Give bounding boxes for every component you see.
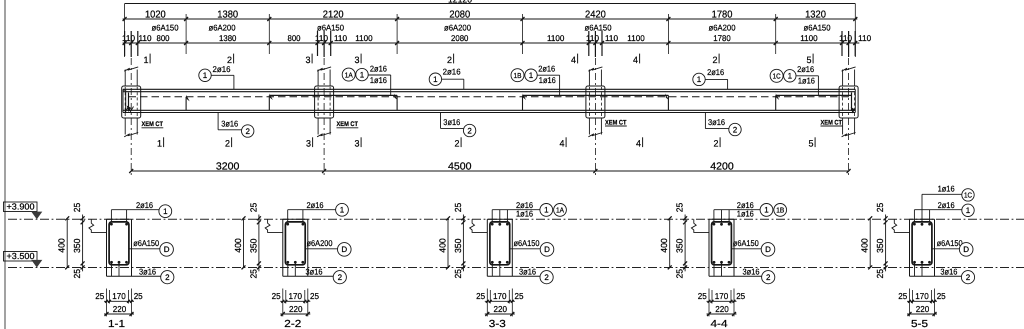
svg-text:350: 350 bbox=[675, 238, 685, 253]
svg-text:3-3: 3-3 bbox=[489, 319, 506, 329]
svg-text:25: 25 bbox=[248, 269, 258, 279]
svg-text:1780: 1780 bbox=[713, 33, 731, 43]
svg-text:110: 110 bbox=[605, 33, 618, 43]
svg-text:1ø16: 1ø16 bbox=[539, 75, 556, 85]
tick row2 bbox=[774, 41, 778, 45]
callout 2ø16 span3 circle 1 bbox=[706, 78, 728, 80]
tick row1 bbox=[184, 17, 188, 21]
section 5-5 stirrup ø6A150 bbox=[912, 222, 932, 265]
tick row2 bbox=[395, 41, 399, 45]
svg-text:XEM CT: XEM CT bbox=[142, 121, 164, 128]
svg-text:5-5: 5-5 bbox=[911, 319, 928, 329]
tick row2 bbox=[123, 41, 127, 45]
section 4-4 concrete outline bbox=[708, 219, 710, 276]
svg-text:110: 110 bbox=[858, 33, 871, 43]
svg-text:800: 800 bbox=[287, 33, 300, 43]
svg-text:2: 2 bbox=[733, 125, 738, 134]
beam bottom chord double line bbox=[123, 109, 855, 111]
tick row1 bbox=[395, 17, 399, 21]
svg-text:350: 350 bbox=[248, 238, 258, 253]
svg-text:400: 400 bbox=[57, 238, 67, 253]
svg-text:3ø16: 3ø16 bbox=[743, 266, 760, 276]
beam right end face bbox=[854, 89, 856, 112]
svg-text:1100: 1100 bbox=[355, 33, 373, 43]
section 3-3 width dims 25 170 25 bbox=[485, 300, 515, 302]
svg-text:1C: 1C bbox=[773, 72, 781, 81]
svg-text:2: 2 bbox=[447, 55, 452, 65]
tick row2 bbox=[847, 41, 851, 45]
tick row2 bbox=[267, 41, 271, 45]
svg-text:25: 25 bbox=[875, 203, 885, 213]
svg-text:4: 4 bbox=[633, 55, 638, 65]
svg-text:2ø16: 2ø16 bbox=[213, 64, 231, 74]
top rebar no.1 dashed line bbox=[129, 96, 852, 98]
section 1-1 vertical dim 400 bbox=[66, 218, 68, 267]
callout support4 circles 1C 1 bbox=[796, 75, 818, 77]
svg-text:XEM CT: XEM CT bbox=[821, 119, 843, 126]
section 3-3 slab break line bbox=[470, 219, 488, 232]
section 1-1 bottom bar callout 3ø16 bbox=[107, 275, 161, 277]
column 2 centerline bbox=[323, 58, 325, 176]
column 4 shaft bbox=[842, 70, 844, 87]
svg-text:170: 170 bbox=[289, 291, 303, 301]
svg-text:1: 1 bbox=[529, 71, 534, 80]
support bar over column 2 bbox=[269, 94, 397, 96]
section 5-5 stirrup callout ø6A150 bbox=[932, 248, 960, 250]
section 5-5 width dims 25 170 25 bbox=[907, 300, 937, 302]
svg-text:3200: 3200 bbox=[216, 161, 240, 172]
callout 3ø16 span1 circle 2 bbox=[217, 113, 219, 130]
section 3-3 concrete outline bbox=[486, 219, 488, 276]
dimension line row2 bbox=[123, 42, 860, 44]
section 5-5 concrete outline bbox=[909, 219, 911, 276]
svg-text:XEM CT: XEM CT bbox=[605, 119, 627, 126]
section 4-4 vertical dim 400 bbox=[669, 218, 671, 267]
column 3 joint bbox=[586, 86, 605, 118]
svg-text:1380: 1380 bbox=[217, 10, 238, 21]
support bar hook at t1 bbox=[185, 97, 187, 111]
section 4-4 bottom bars bbox=[713, 261, 716, 264]
svg-text:ø6A200: ø6A200 bbox=[307, 238, 333, 248]
svg-text:1B: 1B bbox=[514, 71, 522, 80]
svg-text:400: 400 bbox=[233, 238, 243, 253]
section 4-4 slab break line bbox=[691, 219, 709, 232]
section 3-3 stirrup callout ø6A150 bbox=[510, 248, 541, 250]
callout 2ø16 span2 circle 1 bbox=[442, 78, 464, 80]
tick row2 bbox=[136, 41, 140, 45]
svg-text:2: 2 bbox=[966, 273, 971, 282]
section 1-1 top bars bbox=[110, 223, 113, 226]
tick row1 bbox=[521, 17, 525, 21]
svg-text:25: 25 bbox=[937, 291, 946, 301]
section 5-5 dim chain 25 350 25 bbox=[885, 215, 887, 272]
column 2 break marks bbox=[317, 67, 331, 71]
level line +3.500 bbox=[8, 267, 1024, 269]
svg-text:1ø16: 1ø16 bbox=[798, 75, 815, 85]
svg-text:1: 1 bbox=[966, 206, 971, 215]
top rebar bend-down hook left end bbox=[125, 90, 127, 112]
svg-text:25: 25 bbox=[453, 203, 463, 213]
tick row2 bbox=[593, 41, 597, 45]
svg-text:4-4: 4-4 bbox=[711, 319, 728, 329]
svg-text:ø6A150: ø6A150 bbox=[133, 238, 159, 248]
column 1 joint bbox=[122, 86, 141, 118]
beam left end face bbox=[122, 89, 124, 112]
svg-text:ø6A200: ø6A200 bbox=[209, 23, 236, 33]
svg-text:D: D bbox=[765, 245, 771, 254]
column 1 centerline bbox=[130, 58, 132, 176]
svg-text:400: 400 bbox=[659, 238, 669, 253]
svg-text:1C: 1C bbox=[964, 191, 972, 200]
section 2-2 bottom bars bbox=[286, 261, 289, 264]
svg-text:2: 2 bbox=[165, 273, 170, 282]
svg-text:1100: 1100 bbox=[547, 33, 565, 43]
callout 3ø16 span2 circle 2 bbox=[440, 113, 442, 129]
svg-text:3: 3 bbox=[306, 55, 311, 65]
svg-text:2120: 2120 bbox=[323, 10, 344, 21]
left joint break squiggle bbox=[125, 107, 134, 113]
svg-text:170: 170 bbox=[915, 291, 929, 301]
svg-text:2ø16: 2ø16 bbox=[370, 64, 387, 74]
svg-text:110: 110 bbox=[334, 33, 347, 43]
svg-text:1-1: 1-1 bbox=[108, 319, 125, 329]
section 3-3 stirrup ø6A150 bbox=[490, 222, 510, 265]
svg-text:XEM CT: XEM CT bbox=[337, 121, 359, 128]
tick row2 bbox=[521, 41, 525, 45]
svg-text:1100: 1100 bbox=[800, 33, 818, 43]
section 3-3 dim chain 25 350 25 bbox=[462, 215, 464, 272]
svg-text:12120: 12120 bbox=[448, 0, 472, 5]
svg-text:1780: 1780 bbox=[712, 10, 733, 21]
svg-text:1: 1 bbox=[340, 206, 345, 215]
svg-text:ø6A150: ø6A150 bbox=[152, 23, 179, 33]
callout 2ø16 span1 circle 1 bbox=[212, 74, 234, 76]
svg-text:25: 25 bbox=[736, 291, 745, 301]
section 1-1 concrete outline bbox=[106, 219, 108, 276]
svg-text:25: 25 bbox=[72, 203, 82, 213]
extension lines bbox=[124, 4, 126, 58]
section 4-4 dim chain 25 350 25 bbox=[684, 215, 686, 272]
svg-text:1A: 1A bbox=[556, 206, 564, 215]
svg-text:D: D bbox=[963, 245, 969, 254]
svg-text:220: 220 bbox=[113, 304, 127, 314]
svg-text:2ø16: 2ø16 bbox=[797, 64, 814, 74]
svg-text:ø6A150: ø6A150 bbox=[937, 238, 963, 248]
svg-text:1ø16: 1ø16 bbox=[737, 208, 754, 218]
svg-text:350: 350 bbox=[875, 238, 885, 253]
svg-text:220: 220 bbox=[289, 304, 303, 314]
column 4 break marks bbox=[842, 67, 856, 71]
svg-text:25: 25 bbox=[95, 291, 104, 301]
svg-text:1: 1 bbox=[764, 206, 769, 215]
svg-text:25: 25 bbox=[476, 291, 485, 301]
svg-text:350: 350 bbox=[72, 238, 82, 253]
column 2 joint bbox=[315, 86, 334, 118]
svg-text:25: 25 bbox=[248, 203, 258, 213]
svg-text:25: 25 bbox=[134, 291, 143, 301]
svg-text:3ø16: 3ø16 bbox=[221, 118, 238, 128]
section 1-1 width dim 220 bbox=[104, 313, 134, 315]
section 3-3 top bar callout bbox=[492, 209, 540, 211]
svg-text:1ø16: 1ø16 bbox=[516, 208, 533, 218]
section 5-5 vertical dim 400 bbox=[869, 218, 871, 267]
svg-text:2ø16: 2ø16 bbox=[443, 67, 461, 77]
section 2-2 concrete outline bbox=[282, 219, 284, 276]
svg-text:3ø16: 3ø16 bbox=[519, 266, 536, 276]
tick row2 bbox=[853, 41, 857, 45]
svg-text:220: 220 bbox=[715, 304, 729, 314]
svg-text:4500: 4500 bbox=[448, 161, 472, 172]
svg-text:4: 4 bbox=[571, 55, 576, 65]
section 5-5 slab break line bbox=[892, 219, 910, 232]
section 5-5 bottom bar callout 3ø16 bbox=[910, 275, 962, 277]
section 3-3 top bars bbox=[491, 223, 494, 226]
svg-text:25: 25 bbox=[310, 291, 319, 301]
section 4-4 bottom bar callout 3ø16 bbox=[709, 275, 762, 277]
svg-text:2ø16: 2ø16 bbox=[707, 67, 724, 77]
section 1-1 top bar callout bbox=[111, 209, 159, 211]
svg-text:25: 25 bbox=[875, 269, 885, 279]
svg-text:+3.900: +3.900 bbox=[7, 202, 35, 212]
svg-text:2080: 2080 bbox=[449, 10, 470, 21]
tick row2 bbox=[184, 41, 188, 45]
svg-text:ø6A200: ø6A200 bbox=[709, 23, 736, 33]
section 2-2 slab break line bbox=[265, 219, 283, 232]
section 5-5 bottom bars bbox=[913, 261, 916, 264]
level line +3.900 bbox=[8, 218, 1024, 220]
column 3 centerline bbox=[594, 58, 596, 176]
section 1-1 stirrup ø6A150 bbox=[109, 222, 129, 265]
section 4-4 top bar callout bbox=[714, 209, 760, 211]
svg-text:1020: 1020 bbox=[145, 10, 166, 21]
svg-text:1: 1 bbox=[144, 55, 149, 65]
svg-text:1: 1 bbox=[203, 71, 208, 80]
tick row1 bbox=[123, 17, 127, 21]
svg-text:D: D bbox=[544, 245, 550, 254]
svg-text:3: 3 bbox=[355, 139, 360, 149]
section 2-2 vertical dim 400 bbox=[243, 218, 245, 267]
section 2-2 width dim 220 bbox=[280, 313, 310, 315]
svg-text:1B: 1B bbox=[776, 206, 784, 215]
svg-text:1: 1 bbox=[433, 75, 438, 84]
svg-text:+3.500: +3.500 bbox=[7, 251, 35, 261]
svg-text:1380: 1380 bbox=[219, 33, 237, 43]
tick row1 bbox=[774, 17, 778, 21]
tick row1 bbox=[853, 17, 857, 21]
svg-text:400: 400 bbox=[438, 238, 448, 253]
section 2-2 bottom bar callout 3ø16 bbox=[283, 275, 334, 277]
tick row2 bbox=[840, 41, 844, 45]
section 3-3 bottom bar callout 3ø16 bbox=[487, 275, 540, 277]
svg-text:ø6A150: ø6A150 bbox=[804, 23, 831, 33]
section 4-4 width dims 25 170 25 bbox=[707, 300, 737, 302]
section 2-2 width dims 25 170 25 bbox=[280, 300, 310, 302]
svg-text:3ø16: 3ø16 bbox=[139, 266, 156, 276]
beam top chord double line bbox=[123, 88, 855, 90]
svg-text:2ø16: 2ø16 bbox=[538, 64, 555, 74]
svg-text:2ø16: 2ø16 bbox=[136, 200, 153, 210]
svg-text:D: D bbox=[164, 245, 170, 254]
svg-text:1A: 1A bbox=[345, 70, 353, 79]
callout support3 circles 1B 1 bbox=[538, 74, 560, 76]
svg-text:1ø16: 1ø16 bbox=[938, 184, 955, 194]
svg-text:1100: 1100 bbox=[627, 33, 645, 43]
svg-text:2ø16: 2ø16 bbox=[307, 200, 324, 210]
svg-text:4: 4 bbox=[560, 139, 565, 149]
section 3-3 vertical dim 400 bbox=[447, 218, 449, 267]
section 2-2 top bar callout bbox=[288, 209, 336, 211]
svg-text:2-2: 2-2 bbox=[284, 319, 301, 329]
svg-text:25: 25 bbox=[515, 291, 524, 301]
callout 3ø16 span3 circle 2 bbox=[704, 113, 706, 129]
svg-text:3: 3 bbox=[306, 139, 311, 149]
span dimension line bbox=[131, 170, 848, 172]
svg-text:1: 1 bbox=[788, 72, 793, 81]
overall dimension line 12120 bbox=[125, 3, 856, 5]
section 3-3 bottom bars bbox=[491, 261, 494, 264]
top rebar bend-down hook right end bbox=[851, 93, 853, 112]
svg-text:2: 2 bbox=[713, 55, 718, 65]
svg-text:170: 170 bbox=[715, 291, 729, 301]
svg-text:ø6A200: ø6A200 bbox=[444, 23, 471, 33]
svg-text:1: 1 bbox=[157, 139, 162, 149]
svg-text:2080: 2080 bbox=[451, 33, 469, 43]
callout support2 circles 1A 1 bbox=[369, 74, 391, 76]
svg-text:1: 1 bbox=[697, 75, 702, 84]
tick row2 bbox=[587, 41, 591, 45]
svg-text:3ø16: 3ø16 bbox=[306, 266, 323, 276]
column 1 break marks bbox=[124, 67, 138, 71]
svg-text:1ø16: 1ø16 bbox=[370, 75, 387, 85]
svg-text:2: 2 bbox=[455, 139, 460, 149]
svg-text:ø6A150: ø6A150 bbox=[514, 238, 540, 248]
svg-text:350: 350 bbox=[453, 238, 463, 253]
tick row2 bbox=[129, 41, 133, 45]
section 5-5 top bars bbox=[913, 223, 916, 226]
tick row2 bbox=[329, 41, 333, 45]
svg-text:5: 5 bbox=[809, 139, 814, 149]
svg-text:2: 2 bbox=[467, 126, 472, 135]
svg-text:400: 400 bbox=[860, 238, 870, 253]
section 3-3 width dim 220 bbox=[485, 313, 515, 315]
svg-text:25: 25 bbox=[272, 291, 281, 301]
column 3 shaft bbox=[588, 70, 590, 87]
elevation marker +3.500 bbox=[4, 252, 38, 262]
drawing frame left border bbox=[4, 0, 6, 329]
section 2-2 stirrup ø6A200 bbox=[285, 222, 305, 265]
svg-text:1: 1 bbox=[163, 207, 168, 216]
svg-text:2: 2 bbox=[544, 273, 549, 282]
svg-text:25: 25 bbox=[898, 291, 907, 301]
svg-text:170: 170 bbox=[112, 291, 126, 301]
svg-text:2: 2 bbox=[338, 273, 343, 282]
column 4 joint bbox=[839, 86, 858, 118]
svg-text:3ø16: 3ø16 bbox=[443, 117, 460, 127]
svg-text:3: 3 bbox=[355, 55, 360, 65]
section 2-2 stirrup callout ø6A200 bbox=[305, 248, 338, 250]
svg-text:2: 2 bbox=[714, 139, 719, 149]
svg-text:25: 25 bbox=[72, 269, 82, 279]
svg-text:2ø16: 2ø16 bbox=[938, 200, 955, 210]
svg-text:4: 4 bbox=[636, 139, 641, 149]
svg-text:1: 1 bbox=[360, 70, 365, 79]
section 1-1 bottom bars bbox=[110, 261, 113, 264]
column 1 shaft bbox=[124, 70, 126, 87]
svg-text:170: 170 bbox=[493, 291, 507, 301]
column 2 shaft bbox=[317, 70, 319, 87]
dimension line row1 bbox=[123, 18, 858, 20]
svg-text:110: 110 bbox=[138, 33, 151, 43]
section 1-1 slab break line bbox=[89, 219, 107, 232]
section 4-4 top bars bbox=[713, 223, 716, 226]
svg-text:1320: 1320 bbox=[805, 10, 826, 21]
svg-text:2: 2 bbox=[766, 273, 771, 282]
section 4-4 width dim 220 bbox=[707, 313, 737, 315]
svg-text:4200: 4200 bbox=[710, 161, 734, 172]
svg-text:3ø16: 3ø16 bbox=[708, 117, 725, 127]
svg-text:800: 800 bbox=[156, 33, 169, 43]
support bar over column 4 start hook bbox=[776, 94, 852, 96]
section 5-5 top bar callout bbox=[914, 209, 961, 211]
section 1-1 width dims 25 170 25 bbox=[104, 300, 134, 302]
svg-text:25: 25 bbox=[698, 291, 707, 301]
tick row2 bbox=[322, 41, 326, 45]
svg-text:2: 2 bbox=[245, 127, 250, 136]
svg-text:1: 1 bbox=[544, 206, 549, 215]
tick row2 bbox=[666, 41, 670, 45]
section 4-4 stirrup callout ø6A150 bbox=[731, 248, 761, 250]
svg-text:25: 25 bbox=[675, 203, 685, 213]
tick row2 bbox=[600, 41, 604, 45]
section 1-1 dim chain 25 350 25 bbox=[82, 215, 84, 272]
svg-text:220: 220 bbox=[494, 304, 508, 314]
svg-text:25: 25 bbox=[675, 269, 685, 279]
tick row1 bbox=[666, 17, 670, 21]
svg-text:2: 2 bbox=[225, 139, 230, 149]
section 2-2 top bars bbox=[286, 223, 289, 226]
column 4 centerline bbox=[848, 58, 850, 176]
support bar over column 3 bbox=[523, 94, 669, 96]
column 3 break marks bbox=[588, 67, 602, 71]
svg-text:220: 220 bbox=[916, 304, 930, 314]
section 5-5 width dim 220 bbox=[907, 313, 937, 315]
elevation marker +3.900 bbox=[4, 202, 38, 212]
svg-text:D: D bbox=[341, 245, 347, 254]
svg-text:2420: 2420 bbox=[585, 10, 606, 21]
section 4-4 stirrup ø6A150 bbox=[712, 222, 732, 265]
section 1-1 stirrup callout ø6A150 bbox=[129, 248, 160, 250]
svg-text:ø6A150: ø6A150 bbox=[733, 238, 759, 248]
tick row1 bbox=[267, 17, 271, 21]
tick row2 bbox=[316, 41, 320, 45]
svg-text:25: 25 bbox=[453, 269, 463, 279]
svg-text:3ø16: 3ø16 bbox=[940, 266, 957, 276]
section 2-2 dim chain 25 350 25 bbox=[258, 215, 260, 272]
